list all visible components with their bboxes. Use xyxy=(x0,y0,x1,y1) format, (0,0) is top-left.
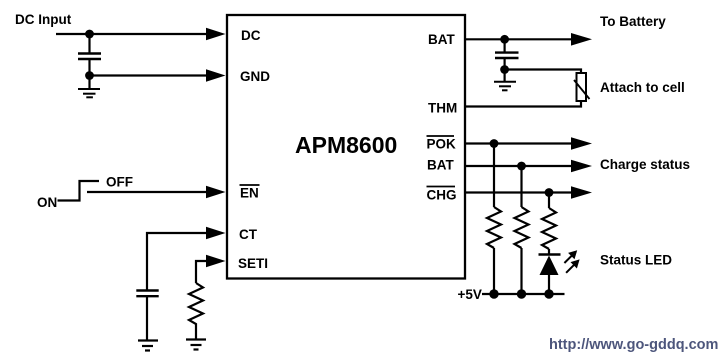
svg-text:CT: CT xyxy=(239,227,258,242)
pin label EN (active low, overline) xyxy=(240,185,260,201)
capacitor C3 (battery) xyxy=(495,39,519,69)
arrow into SETI pin xyxy=(206,255,226,267)
node: rail junction D1 xyxy=(544,289,553,298)
+5V rail xyxy=(482,293,565,295)
svg-text:BAT: BAT xyxy=(427,158,454,173)
wire DC input to DC pin xyxy=(56,33,212,35)
svg-text:To Battery: To Battery xyxy=(600,14,666,29)
wire BAT status out xyxy=(465,165,578,167)
arrow BAT status out xyxy=(571,160,592,173)
wire to GND pin xyxy=(90,74,213,76)
wire CHG pin out xyxy=(465,191,578,193)
wire CT pin to C2 xyxy=(147,233,212,291)
svg-text:http://www.go-gddq.com: http://www.go-gddq.com xyxy=(549,337,718,353)
node: CHG pull-up junction xyxy=(545,188,554,197)
node: thermistor junction xyxy=(500,65,509,74)
node: rail junction R3 xyxy=(517,289,526,298)
wire BAT pin to battery xyxy=(465,38,578,40)
LED D1 (status) xyxy=(539,255,561,295)
node: BAT status pull-up junction xyxy=(517,162,526,171)
capacitor C2 (timer) xyxy=(136,291,158,341)
wire SETI pin to R1 xyxy=(196,261,212,283)
arrow into CT pin xyxy=(206,227,226,239)
svg-text:+5V: +5V xyxy=(458,287,482,302)
svg-text:THM: THM xyxy=(428,101,457,116)
switch S1 ON/OFF lever xyxy=(58,181,100,201)
pin label POK (active low, overline) xyxy=(427,136,457,152)
svg-text:APM8600: APM8600 xyxy=(295,132,397,158)
svg-text:DC Input: DC Input xyxy=(15,12,72,27)
node: POK pull-up junction xyxy=(490,139,499,148)
svg-text:SETI: SETI xyxy=(238,256,268,271)
node: GND junction xyxy=(85,71,94,80)
ground (input cap) xyxy=(78,76,100,98)
wire to EN pin xyxy=(87,191,212,193)
svg-text:GND: GND xyxy=(240,69,270,84)
resistor R2 (POK pull-up) xyxy=(487,144,501,295)
ground (C3) xyxy=(494,70,516,91)
resistor R3 (BAT pull-up) xyxy=(515,166,529,294)
thermistor RT1 xyxy=(574,73,590,101)
svg-text:ON: ON xyxy=(37,195,57,210)
svg-text:Charge status: Charge status xyxy=(600,157,690,172)
IC U1 APM8600 body xyxy=(227,15,465,279)
arrow into DC pin xyxy=(206,28,226,40)
resistor R4 (CHG pull-up) xyxy=(542,193,556,254)
ground (C2) xyxy=(138,341,158,351)
svg-text:Status LED: Status LED xyxy=(600,253,672,268)
arrow To Battery xyxy=(571,33,592,46)
wire POK pin out xyxy=(465,142,578,144)
wire junction to thermistor xyxy=(505,70,581,74)
arrow POK out xyxy=(571,137,592,150)
wire thermistor to THM pin xyxy=(465,101,581,107)
pin label CHG (active low, overline) xyxy=(427,187,457,203)
svg-text:CHG: CHG xyxy=(427,188,457,203)
svg-text:EN: EN xyxy=(240,186,259,201)
node: BAT junction xyxy=(500,35,509,44)
arrow into EN pin xyxy=(206,186,226,198)
ground (R1) xyxy=(186,340,206,350)
capacitor C1 (input) xyxy=(78,34,101,76)
LED light emission arrows xyxy=(564,250,579,273)
svg-text:Attach to cell: Attach to cell xyxy=(600,80,685,95)
node: rail junction R2 xyxy=(489,289,498,298)
svg-text:POK: POK xyxy=(427,137,457,152)
node: DC input junction xyxy=(85,30,94,39)
svg-text:BAT: BAT xyxy=(428,32,455,47)
svg-text:DC: DC xyxy=(241,28,261,43)
svg-text:OFF: OFF xyxy=(106,175,133,190)
arrow into GND pin xyxy=(206,69,226,81)
resistor R1 (SETI) xyxy=(189,283,203,339)
arrow CHG out xyxy=(571,186,592,199)
